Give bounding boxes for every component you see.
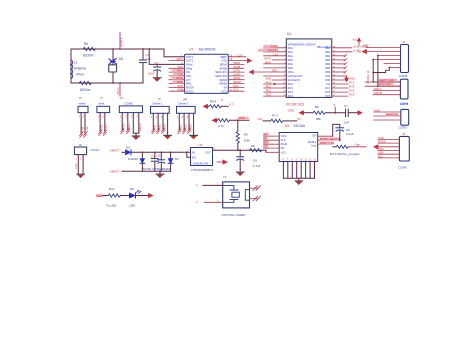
svg-text:MOD: MOD xyxy=(177,80,183,84)
U2 left pin net labels xyxy=(176,57,183,92)
capacitor C5 1uF xyxy=(151,151,161,171)
svg-text:CS/A: CS/A xyxy=(281,135,287,138)
svg-text:J3: J3 xyxy=(402,132,406,136)
svg-text:R6: R6 xyxy=(84,42,88,46)
svg-text:LED: LED xyxy=(130,204,137,208)
svg-text:INn: INn xyxy=(186,70,191,74)
svg-text:DI/uB: DI/uB xyxy=(281,143,288,146)
svg-text:82Ohm: 82Ohm xyxy=(80,88,91,92)
svg-text:VNT2: VNT2 xyxy=(105,124,108,131)
wire R11 to LED xyxy=(121,195,130,197)
svg-text:RC7: RC7 xyxy=(325,87,331,90)
junction dots J1 area xyxy=(372,59,374,61)
svg-text:D6: D6 xyxy=(130,187,134,191)
svg-text:ICP: ICP xyxy=(312,134,317,137)
wire C2 rail from antenna top to U2 pin3 xyxy=(149,49,185,64)
svg-text:5V: 5V xyxy=(297,117,301,121)
wire antenna loop left vertical xyxy=(70,49,72,83)
svg-text:1N4148: 1N4148 xyxy=(128,157,138,161)
power arrow down symbol at U1 VDD right xyxy=(344,76,349,82)
svg-text:SDA: SDA xyxy=(233,84,239,88)
power arrow right after C7 xyxy=(358,110,363,115)
svg-text:DATA: DATA xyxy=(264,56,271,60)
connector J6 Valve xyxy=(78,96,89,137)
svg-text:VSS: VSS xyxy=(221,59,227,63)
U2 right pin wires xyxy=(228,57,247,91)
svg-text:RC6: RC6 xyxy=(325,91,331,94)
svg-text:SUP2: SUP2 xyxy=(233,72,241,76)
junction regulator output to R3/C4 xyxy=(237,149,239,151)
capacitor C1 1uF xyxy=(140,48,152,83)
zener diode D2 xyxy=(140,151,151,171)
connector J6b CON3 prog xyxy=(399,102,409,129)
svg-text:RC0: RC0 xyxy=(266,81,272,85)
svg-text:PIC16F1913: PIC16F1913 xyxy=(286,102,304,106)
svg-text:+12V: +12V xyxy=(236,53,243,57)
svg-text:RB1: RB1 xyxy=(325,51,330,54)
svg-text:OUT: OUT xyxy=(205,151,211,155)
J1 net labels xyxy=(358,44,369,54)
svg-text:R8: R8 xyxy=(251,144,255,148)
capacitor C3 xyxy=(158,151,165,171)
svg-text:10uF: 10uF xyxy=(148,72,155,76)
wire antenna top rail xyxy=(71,49,184,57)
svg-text:A/T: A/T xyxy=(186,78,191,82)
EEPROM U5 body xyxy=(279,124,318,161)
U1 left net labels xyxy=(264,44,278,96)
svg-text:VD2: VD2 xyxy=(325,75,330,78)
svg-text:MOD: MOD xyxy=(265,60,271,64)
svg-text:J9: J9 xyxy=(79,143,82,147)
U2 left pin wires xyxy=(169,61,184,92)
svg-text:DRV A: DRV A xyxy=(374,87,382,91)
resistor R11 R_LED xyxy=(107,187,121,208)
svg-text:S4: S4 xyxy=(224,86,228,90)
wire diode to regulator xyxy=(131,151,191,153)
regulator U4 TPS76933 xyxy=(188,143,216,172)
svg-text:ANT2: ANT2 xyxy=(176,57,183,61)
capacitor C2 10uF xyxy=(148,62,161,75)
svg-text:IRQ: IRQ xyxy=(186,82,191,86)
svg-text:RDY: RDY xyxy=(272,69,278,73)
svg-text:DATA: DATA xyxy=(176,76,183,80)
U5 right pin names xyxy=(308,134,317,147)
svg-text:RB5: RB5 xyxy=(325,67,330,70)
svg-text:CON8: CON8 xyxy=(399,74,408,78)
svg-text:MODE: MODE xyxy=(378,140,386,144)
svg-text:RC5: RC5 xyxy=(325,95,331,98)
U5 left net labels xyxy=(263,133,269,136)
connector J2 CON4 xyxy=(400,79,409,105)
microcontroller U1 PIC16F1913 body xyxy=(286,32,331,107)
svg-text:47uH: 47uH xyxy=(76,73,84,77)
net stub T1 vertical xyxy=(334,103,337,114)
resistor R5 4.7k row with VDD tee xyxy=(212,116,249,128)
svg-text:U5: U5 xyxy=(285,124,289,128)
svg-text:EN: EN xyxy=(192,155,196,159)
svg-text:68k: 68k xyxy=(316,117,321,121)
svg-text:DRV B: DRV B xyxy=(374,91,382,95)
svg-text:R11: R11 xyxy=(109,187,115,191)
svg-text:LED: LED xyxy=(97,194,104,198)
svg-text:RB0: RB0 xyxy=(325,47,330,50)
power arrow below regulator output xyxy=(217,160,227,165)
svg-text:DI: DI xyxy=(264,137,267,141)
svg-text:Driver 1: Driver 1 xyxy=(153,102,164,106)
svg-text:Valve: Valve xyxy=(79,102,86,106)
svg-text:MOD0: MOD0 xyxy=(186,86,194,90)
diode D4 1N4148 xyxy=(126,145,139,161)
svg-text:COIL: COIL xyxy=(75,163,78,169)
svg-text:SENSE1: SENSE1 xyxy=(267,48,278,52)
svg-text:SCL: SCL xyxy=(378,154,384,158)
U5 right net labels xyxy=(320,138,340,141)
ground under C4 xyxy=(236,169,244,175)
svg-text:82Ohm: 82Ohm xyxy=(83,54,94,58)
svg-text:VDD: VDD xyxy=(177,65,183,69)
J6b pin wires xyxy=(374,112,401,120)
svg-text:RA4: RA4 xyxy=(288,63,293,66)
connector J9 COIL2 xyxy=(75,143,100,174)
resistor R6 top 82Ohm xyxy=(78,42,100,58)
svg-text:RC0: RC0 xyxy=(288,83,294,86)
svg-text:VANT1: VANT1 xyxy=(120,37,124,47)
svg-text:DIODE ZENER: DIODE ZENER xyxy=(153,167,171,171)
svg-text:VFed: VFed xyxy=(186,63,193,67)
wire antenna bottom rail xyxy=(71,82,143,84)
svg-text:Vref: Vref xyxy=(258,117,263,121)
wire EN tie xyxy=(187,152,191,157)
LED D6 xyxy=(130,187,142,208)
svg-text:SCL: SCL xyxy=(233,88,239,92)
J1 pin wires xyxy=(366,48,401,68)
svg-text:VLV1: VLV1 xyxy=(81,126,84,133)
svg-text:uPPSB0/RA6T1G2RUA7: uPPSB0/RA6T1G2RUA7 xyxy=(288,43,317,46)
svg-text:RC4: RC4 xyxy=(349,93,355,97)
svg-text:C7: C7 xyxy=(344,104,348,108)
svg-text:R_LED: R_LED xyxy=(107,204,118,208)
svg-text:CLK: CLK xyxy=(281,139,286,142)
svg-text:VDD: VDD xyxy=(325,79,330,82)
J3 pin wires xyxy=(378,139,399,158)
svg-text:CRYSTAL 4.096M: CRYSTAL 4.096M xyxy=(222,213,246,217)
wire prog row xyxy=(304,112,313,114)
svg-text:C5: C5 xyxy=(151,155,155,159)
svg-text:SEN UP1: SEN UP1 xyxy=(215,70,227,74)
svg-text:D3: D3 xyxy=(175,157,179,161)
svg-text:U4: U4 xyxy=(199,143,203,147)
svg-text:SENR: SENR xyxy=(219,78,227,82)
svg-text:RC2: RC2 xyxy=(288,91,294,94)
power arrow right of LED xyxy=(148,193,153,198)
capacitor C4 4.7uF xyxy=(237,149,261,169)
svg-text:PGD1: PGD1 xyxy=(271,44,279,48)
svg-text:SCA: SCA xyxy=(221,89,227,93)
svg-text:6.8k: 6.8k xyxy=(244,139,250,143)
svg-text:COIL2: COIL2 xyxy=(90,148,99,152)
svg-text:R6: R6 xyxy=(315,105,319,109)
ground under J9 xyxy=(77,174,85,178)
svg-text:INut: INut xyxy=(186,74,191,78)
wire after R6 xyxy=(325,112,344,114)
svg-text:SUP1: SUP1 xyxy=(233,69,241,73)
power arrow on U2 pin VSS xyxy=(247,58,252,63)
highlight behind U1 left top labels xyxy=(264,45,279,48)
capacitor C7 1uF xyxy=(344,104,357,124)
svg-text:CON6: CON6 xyxy=(399,166,408,170)
power arrow up at U1 top right xyxy=(353,37,362,44)
junction at EN tie xyxy=(186,151,188,153)
J2 net labels xyxy=(379,79,398,82)
svg-text:L1: L1 xyxy=(74,61,78,65)
U1 pin numbers right xyxy=(333,46,336,96)
svg-text:Wing: Wing xyxy=(186,66,193,70)
crystal Y1 assembly xyxy=(222,175,250,217)
svg-text:VBAT: VBAT xyxy=(220,55,227,59)
resistor R6 68k xyxy=(313,105,326,121)
svg-text:D4: D4 xyxy=(126,145,130,149)
ground under J8 xyxy=(132,133,140,139)
op-amp U2 MLX90109 body xyxy=(184,48,228,94)
svg-text:OUT2: OUT2 xyxy=(186,59,194,63)
svg-text:uAn/Cal IN: uAn/Cal IN xyxy=(288,79,300,82)
U2 right pin names xyxy=(215,55,227,93)
svg-text:WIRE4: WIRE4 xyxy=(139,123,142,132)
svg-text:RC5: RC5 xyxy=(349,89,355,93)
svg-text:RC6: RC6 xyxy=(349,85,355,89)
svg-text:RB6: RB6 xyxy=(325,71,330,74)
U5 right pin wires xyxy=(318,136,333,144)
svg-text:VDD: VDD xyxy=(288,109,295,113)
svg-text:OUT1: OUT1 xyxy=(186,55,194,59)
resistor R9 4.7k row xyxy=(203,100,233,109)
svg-text:MOD1: MOD1 xyxy=(186,89,194,93)
crystal left pin wires xyxy=(196,183,223,204)
U1 right pin names xyxy=(325,47,331,98)
ground on bottom power rail xyxy=(156,170,164,177)
resistor R8 on output row xyxy=(249,144,262,152)
svg-text:GND/NC-FB: GND/NC-FB xyxy=(193,161,208,165)
power arrow left on prog row xyxy=(299,110,304,115)
svg-text:RB3: RB3 xyxy=(325,59,330,62)
svg-text:PGC PGD: PGC PGD xyxy=(379,83,391,87)
resistor R4 program row xyxy=(330,143,378,156)
U2 right net labels xyxy=(233,53,243,91)
svg-text:RC2: RC2 xyxy=(266,89,272,93)
svg-text:VBATT: VBATT xyxy=(110,148,120,152)
ground under J4 xyxy=(190,133,198,139)
svg-text:SENM: SENM xyxy=(219,82,228,86)
svg-text:C4: C4 xyxy=(253,159,257,163)
svg-text:SDA: SDA xyxy=(378,151,384,155)
svg-text:TPS76933DBVT: TPS76933DBVT xyxy=(191,168,213,172)
svg-text:WIRE1: WIRE1 xyxy=(123,123,126,132)
connector J3 CON6 bottom xyxy=(399,132,410,170)
svg-text:93C46A: 93C46A xyxy=(294,124,306,128)
svg-text:VLV2: VLV2 xyxy=(86,126,89,133)
U1 right net labels xyxy=(349,44,369,96)
svg-text:SENB: SENB xyxy=(219,66,227,70)
connector J7 Vent xyxy=(97,96,110,135)
svg-text:1uF: 1uF xyxy=(344,121,349,125)
TVS / varistor D5 xyxy=(109,48,124,84)
svg-text:Vent: Vent xyxy=(99,102,105,106)
svg-text:SHD: SHD xyxy=(177,84,183,88)
svg-text:MOSL1: MOSL1 xyxy=(308,141,317,144)
svg-text:Vout: Vout xyxy=(311,145,316,148)
junction dot on U1 left pin row xyxy=(274,83,276,85)
svg-text:CON3: CON3 xyxy=(400,102,409,106)
svg-text:RB2: RB2 xyxy=(325,55,330,58)
resistor R3 vertical 6.8k xyxy=(236,120,250,150)
power arrow on J1 pin2 xyxy=(362,49,367,54)
svg-text:Vpp: Vpp xyxy=(355,143,360,147)
svg-text:SENM: SENM xyxy=(233,80,242,84)
svg-text:Driver 1: Driver 1 xyxy=(179,102,190,106)
svg-text:RA0: RA0 xyxy=(288,47,293,50)
svg-text:Antenna: Antenna xyxy=(74,67,86,71)
wire jog regulator output to U5 pin5 xyxy=(265,150,267,152)
U2 left pin names xyxy=(186,55,194,93)
svg-text:SK: SK xyxy=(264,133,268,137)
U1 pin numbers left xyxy=(283,46,286,96)
svg-text:WIRE_T 1/2: WIRE_T 1/2 xyxy=(320,141,335,145)
svg-text:uAT/Cal OUT: uAT/Cal OUT xyxy=(288,75,303,78)
svg-text:VDD: VDD xyxy=(239,116,246,120)
svg-text:SENB: SENB xyxy=(233,65,241,69)
svg-text:VBATT GND: VBATT GND xyxy=(379,78,394,82)
svg-text:R7 4: R7 4 xyxy=(272,114,278,118)
svg-text:R3: R3 xyxy=(244,133,248,137)
svg-text:1uF: 1uF xyxy=(156,154,161,158)
svg-text:MODE_SELECT: MODE_SELECT xyxy=(320,137,340,141)
connector J4 Driver 1 xyxy=(177,97,196,134)
junction dots J2 rows xyxy=(372,81,374,83)
svg-text:RA5: RA5 xyxy=(288,67,293,70)
svg-text:U1: U1 xyxy=(287,32,291,36)
J2 pin wires xyxy=(365,82,400,95)
svg-text:ANT2: ANT2 xyxy=(116,87,120,95)
connector J5 Driver 1 xyxy=(151,97,170,134)
svg-text:U2: U2 xyxy=(189,48,193,52)
svg-text:VBATT: VBATT xyxy=(110,169,120,173)
svg-text:RC7: RC7 xyxy=(349,81,355,85)
wire regulator output xyxy=(213,149,267,151)
svg-text:CLK: CLK xyxy=(178,72,183,76)
inductor L1 antenna coil xyxy=(71,60,86,78)
svg-text:WIRE2: WIRE2 xyxy=(128,123,131,132)
svg-text:RA1: RA1 xyxy=(288,51,293,54)
svg-text:VDD: VDD xyxy=(363,44,369,48)
U1 left pin wires xyxy=(254,48,287,96)
svg-text:SHD: SHD xyxy=(265,77,271,81)
svg-text:DO: DO xyxy=(264,141,268,145)
svg-text:4.7uF: 4.7uF xyxy=(253,164,261,168)
svg-text:4.7: 4.7 xyxy=(229,102,234,106)
svg-text:MLX90109: MLX90109 xyxy=(199,48,216,52)
svg-text:Vcc: Vcc xyxy=(353,38,358,42)
bottom power rail xyxy=(122,170,171,172)
svg-text:CLK: CLK xyxy=(273,52,278,56)
power arrow on U1 left pin row xyxy=(249,70,254,75)
capacitor C6 0.1uF bypass loop xyxy=(333,124,354,141)
zener diode D3 xyxy=(153,151,179,171)
svg-text:VS/A: VS/A xyxy=(288,71,294,74)
svg-text:CON6: CON6 xyxy=(125,101,133,105)
svg-text:SEN0: SEN0 xyxy=(220,63,228,67)
svg-text:Y1: Y1 xyxy=(223,175,227,179)
svg-text:1uF: 1uF xyxy=(146,57,151,61)
svg-text:RB4: RB4 xyxy=(325,63,330,66)
svg-text:IN: IN xyxy=(192,151,195,155)
svg-text:R4 4.0kOhm_program: R4 4.0kOhm_program xyxy=(330,152,360,156)
svg-text:RC1: RC1 xyxy=(266,85,272,89)
wire VBATT to diode xyxy=(122,151,126,153)
svg-text:RC3: RC3 xyxy=(266,93,272,97)
svg-text:R9 4: R9 4 xyxy=(210,100,217,104)
diagonal tick marks on U1 right short rows xyxy=(344,55,346,74)
wire LED label to R11 xyxy=(103,195,108,197)
U2 pin numbers xyxy=(181,54,233,91)
net stub ANT1 vertical xyxy=(119,33,123,50)
svg-text:D5: D5 xyxy=(119,57,123,61)
svg-text:RDY: RDY xyxy=(177,69,183,73)
svg-text:RC1: RC1 xyxy=(288,87,294,90)
svg-text:PROG 1/2: PROG 1/2 xyxy=(386,113,399,117)
svg-text:4.7k: 4.7k xyxy=(218,124,224,128)
wire vertical J1 pin4 to J2 pin1 xyxy=(373,56,400,87)
net label LED xyxy=(96,194,103,197)
svg-text:CON3: CON3 xyxy=(399,125,408,129)
resistor R10 row to U5 xyxy=(258,114,301,123)
svg-text:DO: DO xyxy=(281,147,285,150)
svg-text:VNT1: VNT1 xyxy=(100,124,103,131)
svg-text:+CS: +CS xyxy=(281,151,286,154)
svg-text:VDD: VDD xyxy=(378,147,384,151)
connector J1 CON8 top xyxy=(399,40,409,78)
J3 net labels xyxy=(378,136,386,159)
net stub ANT2 vertical xyxy=(116,82,121,96)
ground under J5 xyxy=(164,133,172,139)
svg-text:0.1uF: 0.1uF xyxy=(346,132,354,136)
resistor R7 bottom 82Ohm xyxy=(79,81,92,92)
wire LED to power arrow xyxy=(136,195,150,197)
U1 right pin wires xyxy=(332,48,352,96)
svg-text:SENR: SENR xyxy=(233,76,241,80)
U1 left pin names xyxy=(288,47,303,98)
svg-text:CS: CS xyxy=(264,145,268,149)
svg-text:RA3: RA3 xyxy=(288,59,293,62)
svg-text:GND: GND xyxy=(374,108,380,112)
U5 left pin names xyxy=(281,135,288,154)
U5 left pin wires xyxy=(264,136,280,152)
svg-text:1N4748: 1N4748 xyxy=(141,167,151,171)
crystal right no-connect marks xyxy=(250,186,261,201)
U5 bottom pin numbers xyxy=(282,160,316,162)
highlights behind U2 left labels xyxy=(172,69,183,72)
svg-text:GND: GND xyxy=(378,136,384,140)
ground under U5 pins xyxy=(295,178,303,184)
svg-text:J1: J1 xyxy=(402,40,406,44)
J6b net labels xyxy=(374,108,380,112)
U5 bottom pin stubs xyxy=(283,162,314,179)
svg-text:SEN UP2: SEN UP2 xyxy=(215,74,227,78)
svg-text:RA2: RA2 xyxy=(288,55,293,58)
svg-text:RC3: RC3 xyxy=(288,95,294,98)
ground under C2 xyxy=(153,75,161,81)
svg-text:SEN0: SEN0 xyxy=(233,61,241,65)
svg-text:GND: GND xyxy=(349,77,355,81)
